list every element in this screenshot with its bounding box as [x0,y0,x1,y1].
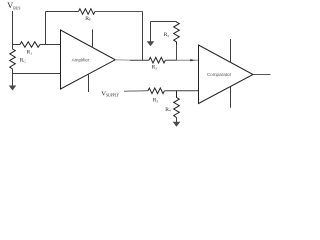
signal direction arrowhead on comparator input wire [190,59,195,61]
wire R2 top bracket [151,21,177,23]
wire R1 left lead [13,44,21,46]
resistor R2 [174,22,180,45]
wire amp output gray segment [115,59,130,61]
wire feedback top left [46,11,79,13]
wire RG bottom to amp lower input [13,69,61,74]
resistor R3 (comparator input series) [149,57,165,63]
ground below R4 [176,118,178,123]
wire R1 to amp input [40,44,61,46]
svg-text:Amplifier: Amplifier [72,58,90,63]
resistor R4 [174,91,180,118]
resistor RF [79,9,96,15]
amp bottom power pin [88,74,90,92]
comparator bottom power pin [230,87,232,108]
wire R3 to R2 junction [165,59,176,61]
wire feedback left leg [45,12,47,45]
resistor R1 [20,42,40,48]
comparator U2 [199,45,254,104]
wire VSUPPLY lead [124,90,148,92]
wire junction to comparator input [177,59,199,61]
ground arrow upper right [150,22,152,42]
comparator top power pin [230,39,232,62]
op-amp U1 Amplifier [61,30,116,89]
wire feedback top right [95,11,143,13]
resistor R3 (supply divider) [148,88,164,94]
wire comparator output [253,74,271,76]
wire VBUS rail down [12,11,14,49]
amp top power pin [92,30,94,48]
svg-text:Comparator: Comparator [207,72,232,77]
resistor RG [10,49,16,69]
wire amp output to R3 [130,59,149,61]
ground left [12,74,14,86]
wire R2 bottom stem [176,45,178,61]
wire feedback right leg [142,12,144,61]
wire R3 to comparator lower input [164,90,198,92]
